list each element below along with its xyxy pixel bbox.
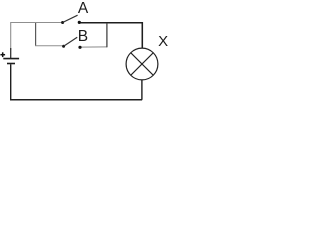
svg-text:A: A (78, 0, 89, 17)
svg-text:X: X (158, 33, 168, 50)
svg-text:B: B (78, 28, 88, 45)
